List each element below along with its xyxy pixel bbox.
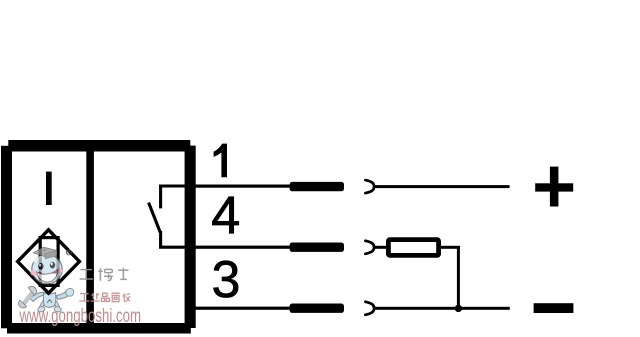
sensor body border bbox=[1, 140, 196, 334]
watermark text gongboshi bbox=[80, 268, 129, 281]
switch S1 stub from pin1 wire bbox=[159, 185, 190, 209]
mascot wrench bbox=[24, 294, 32, 304]
mascot legs bbox=[39, 301, 45, 311]
registered mark bbox=[66, 250, 71, 255]
mascot head bbox=[32, 255, 62, 284]
mascot head over diamond bbox=[30, 247, 62, 284]
mascot right hand bbox=[66, 288, 74, 296]
connector contact 1 bbox=[365, 180, 374, 193]
minus terminal bbox=[534, 303, 574, 313]
mascot right eye bbox=[50, 262, 55, 269]
pin label 1 bbox=[214, 144, 227, 178]
mascot torso bbox=[43, 293, 55, 308]
switch S1 blade bbox=[149, 203, 161, 233]
mascot torso marks bbox=[48, 300, 52, 303]
wire pin1 external bbox=[191, 185, 290, 188]
sensor symbol diamond bbox=[18, 230, 80, 293]
wire 1 to plus bbox=[374, 185, 510, 188]
wire pin4 external bbox=[191, 246, 290, 249]
load resistor RL bbox=[388, 240, 438, 256]
wire pin3 external bbox=[191, 307, 290, 310]
sensor symbol inner rectangle bbox=[40, 238, 58, 286]
terminal bar pin1 bbox=[290, 182, 344, 191]
mascot left arm bbox=[30, 292, 44, 301]
svg-text:www.gongboshi.com: www.gongboshi.com bbox=[19, 306, 141, 327]
terminal bar pin4 bbox=[290, 243, 344, 252]
svg-text:3: 3 bbox=[211, 251, 240, 309]
mascot right arm bbox=[57, 291, 70, 299]
mascot cheeks bbox=[30, 270, 37, 276]
mascot feet bbox=[37, 306, 45, 313]
plus terminal bbox=[535, 183, 573, 191]
border corner notches bbox=[1, 140, 9, 146]
vertical wire to node bbox=[457, 246, 460, 308]
watermark text gongyepin shangcheng bbox=[79, 293, 130, 302]
mascot left eye bbox=[38, 263, 43, 270]
wire load to corner bbox=[441, 246, 460, 249]
junction node bbox=[455, 305, 462, 312]
terminal bar pin3 bbox=[290, 304, 344, 313]
cell divider bbox=[86, 152, 94, 324]
mascot cap bbox=[33, 247, 56, 257]
mascot lower body under diamond bbox=[19, 286, 74, 312]
connector contact 3 bbox=[365, 302, 374, 315]
switch S1 lower stub and wire to pin4 bbox=[159, 231, 190, 247]
svg-text:4: 4 bbox=[211, 187, 240, 246]
mascot mouth bbox=[37, 270, 58, 283]
connector contact 4 bbox=[365, 241, 374, 254]
wire 4 to load bbox=[374, 246, 388, 249]
wire 3 to minus bbox=[374, 307, 510, 310]
sensing element bar I bbox=[46, 172, 52, 205]
